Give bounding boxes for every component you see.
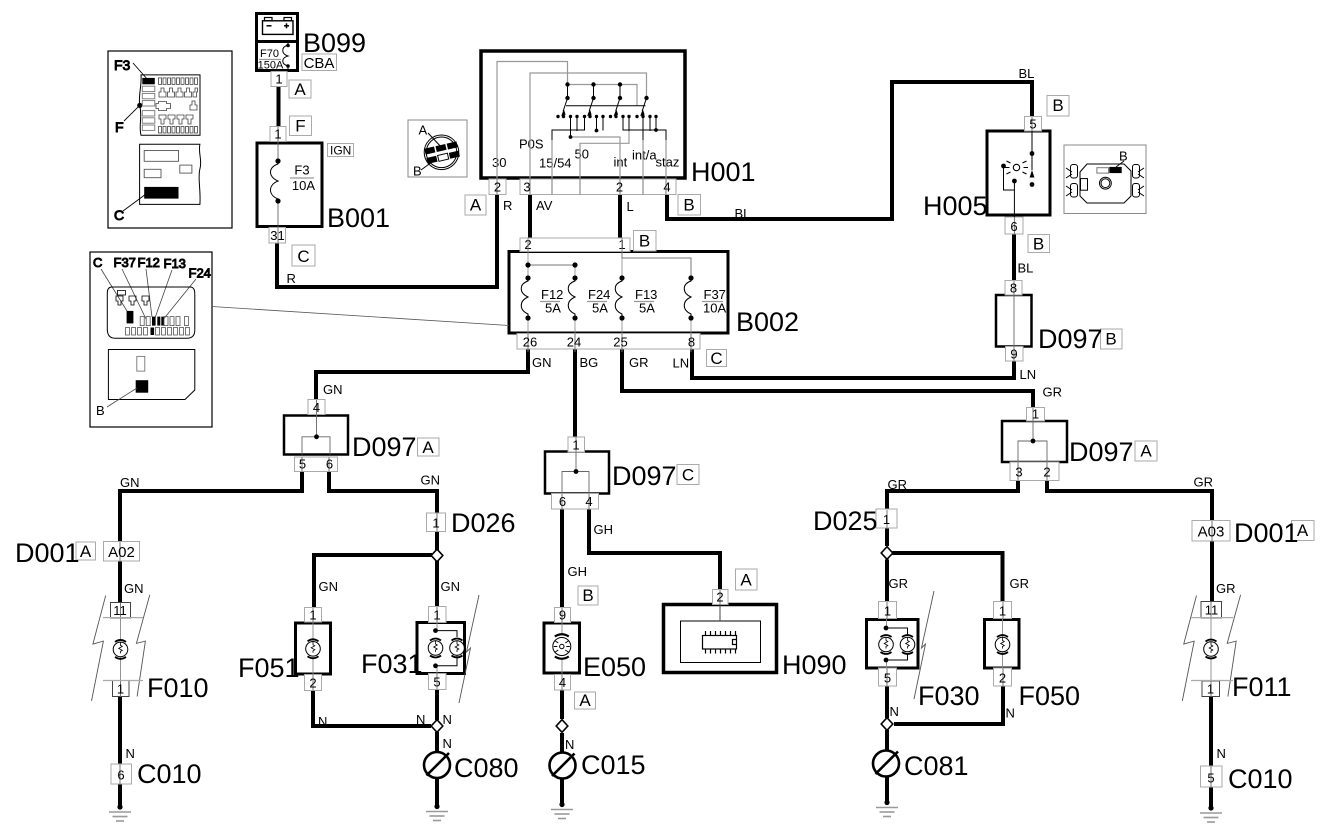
svg-text:GR: GR [1216,581,1236,596]
svg-text:C: C [682,466,694,485]
svg-text:31: 31 [270,228,284,243]
svg-text:GN: GN [421,473,441,488]
svg-text:F3: F3 [294,163,309,178]
svg-text:N: N [565,737,574,752]
svg-text:GR: GR [1043,385,1063,400]
svg-text:26: 26 [523,335,537,350]
svg-text:F3: F3 [114,57,131,73]
svg-text:3: 3 [523,180,530,195]
svg-text:B: B [96,403,105,418]
svg-text:C081: C081 [904,751,969,781]
svg-text:N: N [126,746,135,761]
svg-text:A: A [80,542,92,561]
svg-text:2: 2 [494,180,501,195]
svg-text:150A: 150A [258,60,284,72]
svg-text:D001: D001 [1234,518,1299,548]
svg-text:GN: GN [124,581,144,596]
svg-text:5: 5 [1207,771,1214,786]
svg-text:R: R [503,198,512,213]
svg-text:R: R [287,271,296,286]
svg-text:1: 1 [572,438,579,453]
svg-text:A: A [1140,442,1152,461]
svg-text:int/a: int/a [632,148,657,163]
svg-text:1: 1 [883,512,890,527]
svg-text:F010: F010 [147,673,209,703]
svg-text:D097: D097 [1038,324,1103,354]
svg-text:CBA: CBA [304,55,335,72]
svg-text:A03: A03 [1198,524,1225,541]
svg-text:1: 1 [275,72,282,87]
svg-text:GR: GR [889,576,909,591]
svg-text:5A: 5A [639,301,655,316]
svg-text:D097: D097 [1069,437,1134,467]
svg-text:E050: E050 [583,652,646,682]
svg-text:A02: A02 [108,544,135,561]
svg-text:2: 2 [309,676,316,691]
svg-text:30: 30 [492,155,506,170]
svg-text:F70: F70 [260,48,279,60]
svg-text:BL: BL [1019,66,1035,81]
svg-text:F031: F031 [361,649,423,679]
svg-text:6: 6 [559,494,566,509]
svg-text:staz: staz [656,155,680,170]
svg-text:C015: C015 [581,750,646,780]
svg-text:N: N [1217,746,1226,761]
svg-text:A: A [579,691,591,710]
svg-text:50: 50 [575,147,589,162]
svg-text:F050: F050 [1019,681,1081,711]
svg-text:GN: GN [441,579,461,594]
svg-text:4: 4 [313,400,320,415]
svg-text:F: F [115,119,124,135]
svg-text:L: L [627,199,634,214]
svg-text:10A: 10A [292,178,315,193]
svg-text:25: 25 [613,335,627,350]
svg-text:N: N [1006,706,1015,721]
svg-text:A: A [422,438,434,457]
svg-text:11: 11 [1205,603,1219,618]
svg-text:1: 1 [432,516,439,531]
svg-text:LN: LN [1020,367,1037,382]
svg-text:5: 5 [299,457,306,472]
svg-text:11: 11 [113,603,127,618]
svg-text:D025: D025 [813,506,878,536]
svg-text:1: 1 [999,604,1006,619]
svg-text:9: 9 [559,608,566,623]
svg-text:IGN: IGN [330,144,351,158]
svg-text:D001: D001 [15,538,80,568]
svg-text:F12: F12 [138,255,160,270]
svg-text:GH: GH [568,564,588,579]
svg-text:2: 2 [999,671,1006,686]
svg-text:B: B [582,586,593,605]
svg-text:6: 6 [117,768,124,783]
svg-text:C: C [93,255,102,270]
svg-text:N: N [416,712,425,727]
svg-text:F13: F13 [164,256,186,271]
svg-text:AV: AV [536,198,553,213]
svg-text:B: B [1052,96,1063,115]
svg-text:F051: F051 [238,653,300,683]
svg-text:H005: H005 [923,191,988,221]
svg-text:GR: GR [888,477,908,492]
svg-text:BL: BL [1018,261,1034,276]
svg-text:5: 5 [884,671,891,686]
svg-text:2: 2 [1043,465,1050,480]
svg-text:5A: 5A [545,301,561,316]
svg-text:1: 1 [117,682,124,697]
svg-text:F37: F37 [114,255,136,270]
svg-text:4: 4 [663,180,670,195]
svg-text:1: 1 [1032,407,1039,422]
svg-text:C: C [710,349,722,368]
svg-text:P0S: P0S [519,137,544,152]
svg-text:B001: B001 [327,203,390,233]
svg-text:C010: C010 [1228,764,1293,794]
svg-text:H090: H090 [782,650,847,680]
svg-text:LN: LN [673,356,690,371]
svg-text:A: A [1297,521,1309,540]
svg-text:GR: GR [629,355,649,370]
svg-text:2: 2 [716,590,723,605]
svg-text:B: B [639,232,650,251]
svg-text:1: 1 [1207,682,1214,697]
svg-text:BG: BG [580,355,599,370]
svg-text:GN: GN [532,355,552,370]
svg-text:1: 1 [309,608,316,623]
svg-text:GR: GR [1010,576,1030,591]
svg-text:GN: GN [319,579,339,594]
svg-text:C: C [297,247,309,266]
svg-text:15/54: 15/54 [539,156,572,171]
svg-text:N: N [890,704,899,719]
svg-text:B002: B002 [736,307,799,337]
svg-text:D026: D026 [451,508,516,538]
svg-text:3: 3 [1015,465,1022,480]
svg-text:GN: GN [323,382,343,397]
svg-text:5: 5 [1029,117,1036,132]
svg-text:9: 9 [1010,347,1017,362]
svg-text:F011: F011 [1232,672,1292,702]
svg-text:10A: 10A [703,301,726,316]
svg-text:A: A [419,123,428,138]
svg-text:A: A [470,196,482,215]
svg-text:F030: F030 [918,681,980,711]
svg-text:6: 6 [1010,219,1017,234]
svg-text:BL: BL [735,206,751,221]
svg-text:GR: GR [1194,475,1214,490]
svg-text:1: 1 [433,608,440,623]
svg-text:F: F [295,117,305,136]
svg-text:2: 2 [616,180,623,195]
svg-text:4: 4 [585,494,592,509]
svg-text:24: 24 [567,335,581,350]
svg-text:B: B [413,164,422,179]
svg-text:4: 4 [559,675,566,690]
svg-text:GH: GH [594,522,614,537]
svg-text:1: 1 [274,127,281,142]
svg-text:GN: GN [120,475,140,490]
svg-text:F24: F24 [189,266,211,281]
svg-text:6: 6 [326,457,333,472]
svg-text:N: N [318,714,327,729]
svg-text:N: N [443,712,452,727]
svg-text:D097: D097 [352,432,417,462]
svg-text:8: 8 [688,335,695,350]
svg-text:B: B [1033,235,1044,254]
svg-text:5A: 5A [592,301,608,316]
svg-text:N: N [443,736,452,751]
svg-text:C: C [114,207,124,223]
svg-text:C080: C080 [454,753,519,783]
svg-text:H001: H001 [691,157,756,187]
svg-text:B: B [1105,330,1116,349]
svg-text:8: 8 [1010,281,1017,296]
svg-text:A: A [294,80,306,99]
svg-text:5: 5 [433,675,440,690]
svg-text:C010: C010 [137,759,202,789]
svg-text:D097: D097 [612,461,677,491]
svg-text:A: A [740,571,752,590]
svg-text:1: 1 [884,604,891,619]
svg-text:B: B [683,196,694,215]
svg-text:B099: B099 [303,28,366,58]
